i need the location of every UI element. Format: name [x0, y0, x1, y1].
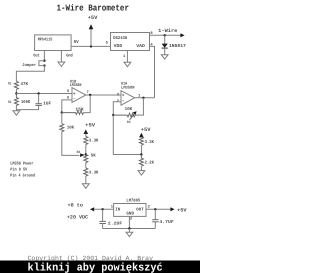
node U1A feedback junction: [112, 114, 114, 116]
power +5V arrow (top): [88, 15, 99, 46]
potentiometer R3 10K: [113, 107, 136, 125]
ground (regulator): [126, 232, 133, 236]
node U1B feedback junction: [61, 111, 63, 113]
wire MPX4115 Out pin down: [43, 51, 45, 61]
svg-text:R3: R3: [127, 120, 131, 125]
svg-text:OUT: OUT: [136, 207, 144, 212]
resistor R9 3.3K (divider top): [139, 137, 154, 145]
wire R7 to pot junction: [85, 145, 87, 155]
wire LM7805 GND pin to bus: [128, 216, 130, 228]
wire MPX4115 Gnd pin down: [60, 51, 62, 63]
node U1B output junction: [89, 94, 91, 96]
svg-text:10K: 10K: [125, 107, 133, 112]
svg-text:10K: 10K: [67, 126, 75, 131]
svg-text:-: -: [122, 99, 125, 104]
capacitor C2 2.2UF: [99, 209, 122, 228]
wire input to regulator: [94, 208, 114, 210]
node cap junction: [37, 92, 39, 94]
diode D1 1N5817: [162, 43, 186, 49]
svg-text:MPX4115: MPX4115: [38, 38, 53, 43]
svg-text:+5V: +5V: [141, 127, 152, 133]
wire R6 to wiper of R4: [62, 132, 80, 156]
wire ground bus: [103, 228, 156, 230]
resistor R10 2.2K (divider bottom): [139, 155, 154, 167]
wire output drop to feedback pot: [135, 98, 143, 115]
ground (pot chain): [82, 184, 89, 189]
ground (diode): [161, 55, 168, 59]
resistor R8 3.3K (bottom of pot chain): [84, 168, 99, 176]
svg-text:Pin 8 5V: Pin 8 5V: [10, 167, 27, 173]
node diode junction: [164, 34, 166, 36]
chip U3 DS2438: [111, 33, 150, 51]
wire U1A -input: [113, 102, 121, 115]
resistor R2 100K: [8, 94, 31, 106]
node pot junction: [85, 153, 87, 155]
output +5V arrow: [170, 207, 174, 211]
resistor R1 47K: [8, 81, 28, 89]
ground (R2 / C1): [13, 111, 20, 115]
wire jumper to R1: [16, 66, 44, 82]
wire DS2438 pin1 to ground: [126, 51, 128, 63]
svg-text:5V: 5V: [74, 40, 80, 45]
input terminal arrow +8 to +20 VDC: [67, 202, 94, 220]
capacitor C1 1UF: [16, 94, 51, 110]
svg-text:Out: Out: [33, 53, 40, 58]
ground (MPX4115): [58, 62, 65, 66]
svg-text:LM358N: LM358N: [121, 86, 135, 91]
svg-text:+5V: +5V: [177, 208, 187, 214]
potentiometer R4 5K: [84, 154, 96, 163]
svg-text:1UF: 1UF: [43, 101, 52, 106]
wire U1B output to U1A +input: [86, 94, 121, 96]
svg-text:4.7UF: 4.7UF: [159, 220, 174, 225]
svg-text:+8 to: +8 to: [68, 202, 84, 208]
1-Wire output arrow: [180, 33, 184, 37]
svg-text:R2: R2: [8, 100, 11, 105]
svg-text:2.2K: 2.2K: [145, 160, 155, 165]
wire R2 to ground: [15, 106, 17, 111]
wire junction to diode D1: [164, 35, 166, 43]
wire R9 to divider junction: [140, 145, 142, 154]
ground (divider): [138, 171, 145, 175]
sensor U2 MPX4115: [35, 35, 72, 51]
svg-text:IN: IN: [115, 207, 120, 212]
op-amp U1A LM358N: [121, 81, 135, 105]
power +5V arrow (right divider): [139, 127, 151, 137]
svg-text:3.3K: 3.3K: [89, 138, 99, 143]
wire -node down to R6: [61, 113, 63, 124]
svg-text:kliknij aby powiększyć: kliknij aby powiększyć: [28, 262, 163, 273]
banner kliknij aby powiekszyc: [0, 261, 200, 273]
svg-text:47K: 47K: [21, 82, 29, 87]
node U1A output junction: [142, 97, 144, 99]
node junction +5V drop: [90, 45, 92, 47]
svg-text:DS2438: DS2438: [113, 36, 128, 41]
svg-text:Gnd: Gnd: [66, 52, 73, 58]
svg-text:1-Wire: 1-Wire: [158, 28, 177, 34]
wire U1B -input: [62, 100, 72, 113]
ground (DS2438): [124, 62, 131, 66]
wire U1A -node down to divider junction: [113, 115, 141, 154]
svg-text:VDD: VDD: [114, 44, 123, 49]
wire bus to ground: [128, 229, 130, 233]
wire R1 to node: [15, 89, 17, 93]
svg-text:LM7805: LM7805: [126, 198, 140, 203]
node bus junction: [128, 227, 130, 229]
node divider junction: [140, 153, 142, 155]
node output cap junction: [154, 208, 156, 210]
svg-text:1N5817: 1N5817: [169, 43, 186, 49]
resistor R7 3.3K (top of pot chain): [84, 136, 99, 144]
regulator U4 LM7805: [114, 198, 146, 216]
svg-text:1-Wire Barometer: 1-Wire Barometer: [57, 4, 130, 14]
jumper J1: [22, 60, 45, 69]
svg-text:+5V: +5V: [85, 123, 96, 129]
op-amp U1B LM358N: [70, 79, 86, 102]
wire diode to ground: [164, 48, 166, 55]
svg-text:Pin 4 Ground: Pin 4 Ground: [10, 173, 35, 179]
wire DS2438 pin8 1-Wire out: [150, 34, 182, 36]
resistor R5 15K: [62, 107, 84, 114]
node filter junction: [15, 92, 17, 94]
capacitor C3 4.7UF: [152, 209, 174, 228]
svg-text:15K: 15K: [75, 107, 84, 112]
svg-text:+5V: +5V: [88, 15, 99, 21]
node input cap junction: [101, 208, 103, 210]
svg-text:R1: R1: [8, 82, 11, 87]
wire node to U1B +input: [16, 93, 72, 95]
svg-text:-: -: [73, 96, 76, 101]
svg-text:GND: GND: [126, 212, 134, 217]
note LM358 power text: [10, 162, 35, 179]
wire feedback drop from output: [84, 95, 91, 113]
wire U1A output: [135, 97, 155, 99]
power +5V arrow (5K chain): [84, 123, 96, 137]
svg-text:LM358 Power: LM358 Power: [10, 162, 34, 167]
svg-text:+: +: [122, 94, 125, 99]
wire regulator output: [146, 208, 171, 210]
wire R8 to ground: [85, 176, 87, 184]
svg-text:R4: R4: [77, 150, 81, 155]
svg-text:2.2UF: 2.2UF: [108, 221, 123, 226]
svg-text:3.3K: 3.3K: [145, 140, 155, 145]
wire 5K to R8: [85, 163, 87, 168]
svg-text:5K: 5K: [91, 154, 96, 159]
svg-text:+20 VDC: +20 VDC: [67, 215, 88, 221]
wire DS2438 pin4 down to U1A output: [150, 46, 155, 97]
resistor R6 10K: [60, 124, 75, 132]
svg-text:100K: 100K: [21, 100, 31, 105]
svg-text:3.3K: 3.3K: [89, 170, 99, 175]
svg-text:LM358N: LM358N: [70, 83, 82, 88]
wiper arrow into 5K pot: [80, 153, 85, 157]
wire MPX4115 5V to DS2438 pin5: [71, 45, 110, 47]
wire R10 to ground: [140, 166, 142, 170]
svg-text:VAD: VAD: [136, 44, 145, 49]
svg-text:Jumper: Jumper: [22, 63, 36, 68]
